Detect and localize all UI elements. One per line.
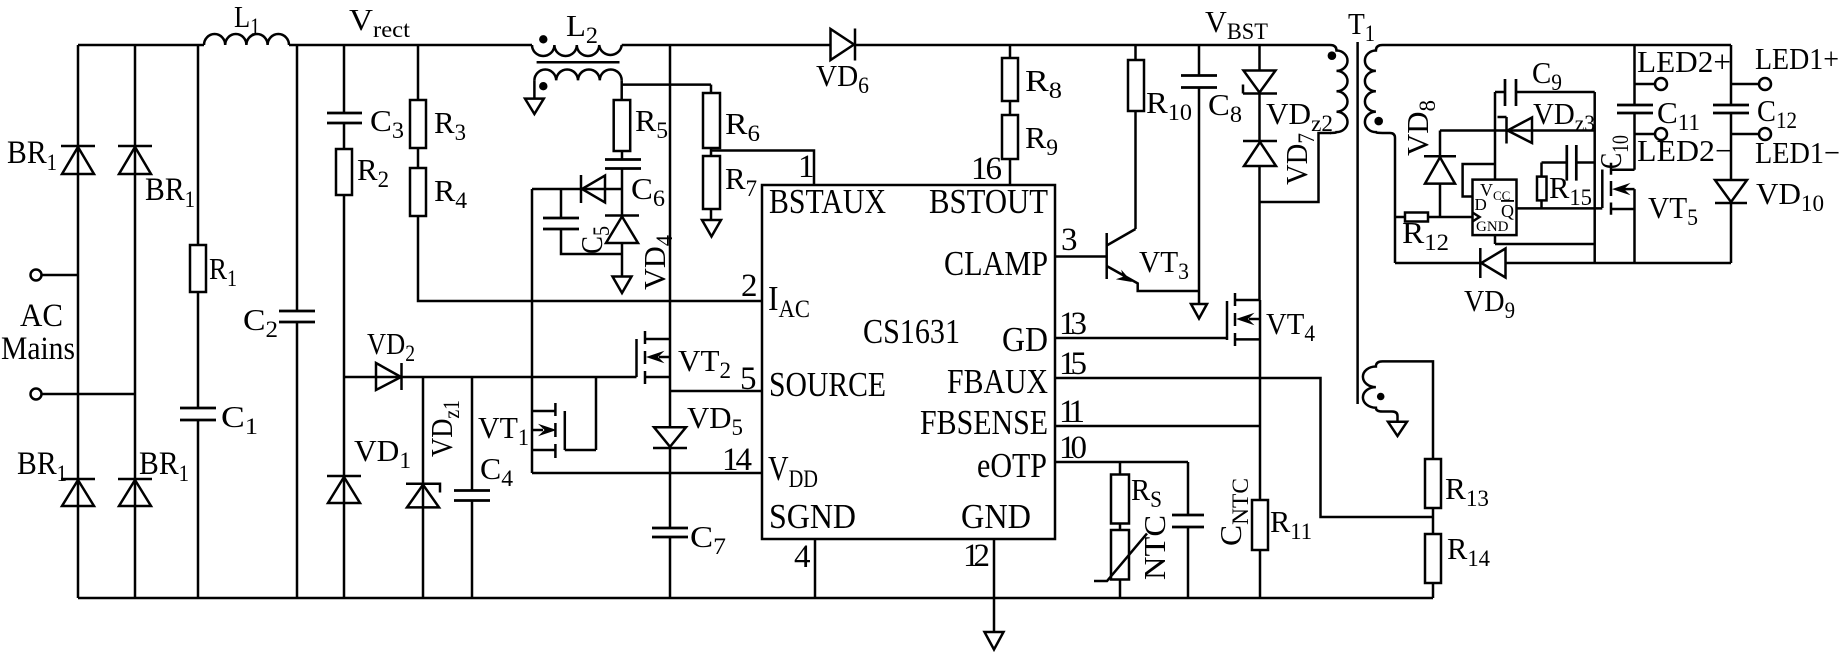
wire LED2 vertical bbox=[1633, 45, 1636, 263]
flip-flop clock mark bbox=[1473, 213, 1480, 222]
svg-text:LED1+: LED1+ bbox=[1755, 41, 1839, 76]
capacitor C7 bbox=[652, 528, 688, 537]
svg-text:1: 1 bbox=[798, 149, 815, 185]
svg-text:VDz2: VDz2 bbox=[1266, 96, 1333, 136]
diode VD9 bbox=[1480, 248, 1505, 278]
ground under C8 bbox=[1191, 304, 1207, 319]
resistor R15 bbox=[1537, 163, 1547, 209]
wire L2 secondary right leg to R5 bbox=[620, 80, 623, 100]
svg-text:BSTAUX: BSTAUX bbox=[769, 182, 886, 221]
capacitor C11 bbox=[1617, 105, 1653, 113]
svg-text:VD10: VD10 bbox=[1756, 176, 1824, 216]
resistor R7 bbox=[703, 156, 720, 209]
wire pin 10 eOTP bbox=[1055, 461, 1188, 464]
transistor VT4 bbox=[1055, 293, 1260, 346]
transformer L2 primary bbox=[532, 45, 622, 56]
diode BR1 bottom-right bbox=[118, 479, 152, 506]
capacitor C6 bbox=[605, 160, 641, 169]
svg-text:GND: GND bbox=[1476, 219, 1509, 235]
wire R12 clock horizontal bbox=[1395, 216, 1473, 219]
wire left vertical bus bbox=[77, 45, 80, 598]
svg-text:VT5: VT5 bbox=[1648, 190, 1698, 230]
svg-text:R6: R6 bbox=[725, 106, 760, 146]
node LED1- terminal bbox=[1731, 128, 1771, 140]
wire rail L2 to VD6 to T1 bbox=[622, 44, 1330, 47]
svg-text:VD7: VD7 bbox=[1279, 133, 1319, 185]
svg-text:BR1: BR1 bbox=[145, 172, 195, 212]
wire VDz2 VD7 VT4 vertical bbox=[1258, 45, 1261, 300]
svg-text:LED2+: LED2+ bbox=[1637, 44, 1731, 79]
transistor VT5 bbox=[1602, 163, 1634, 215]
resistor R1 bbox=[190, 245, 206, 292]
resistor R5 bbox=[614, 100, 631, 151]
label AC Mains bbox=[1, 298, 75, 367]
svg-text:15: 15 bbox=[1059, 346, 1087, 382]
node AC terminal upper bbox=[31, 270, 79, 281]
svg-text:BR1: BR1 bbox=[17, 446, 67, 486]
svg-text:R14: R14 bbox=[1447, 531, 1490, 571]
svg-text:C7: C7 bbox=[690, 519, 726, 559]
wire second vertical bbox=[134, 45, 137, 598]
resistor R13 bbox=[1425, 459, 1441, 508]
transformer T1 primary dot bbox=[1328, 51, 1337, 60]
svg-text:3: 3 bbox=[1061, 222, 1078, 258]
inductor L1 bbox=[204, 34, 289, 45]
diode VD1 bbox=[327, 476, 361, 503]
wire right vertical x1594 bbox=[1593, 92, 1596, 263]
svg-text:VDz3: VDz3 bbox=[1533, 96, 1595, 136]
wire zener row B bbox=[1440, 129, 1595, 132]
transformer T1 secondary dot bbox=[1374, 117, 1383, 126]
diode VD5 bbox=[653, 427, 687, 448]
diode VD7 bbox=[1243, 141, 1277, 166]
svg-text:C1: C1 bbox=[221, 399, 258, 439]
svg-text:BSTOUT: BSTOUT bbox=[929, 182, 1048, 221]
wire VDz1 vertical bbox=[422, 377, 425, 598]
svg-text:VBST: VBST bbox=[1205, 4, 1268, 44]
resistor R6 bbox=[703, 85, 720, 148]
svg-text:LED2−: LED2− bbox=[1637, 133, 1733, 168]
diode VD6 bbox=[831, 29, 856, 61]
wire pin 3 CLAMP bbox=[1055, 255, 1106, 258]
wire RS NTC branch bbox=[1119, 462, 1122, 598]
node LED2- terminal bbox=[1635, 128, 1668, 140]
capacitor C2 bbox=[279, 311, 315, 322]
svg-text:BR1: BR1 bbox=[7, 135, 57, 175]
svg-text:10: 10 bbox=[1059, 430, 1087, 466]
svg-text:CNTC: CNTC bbox=[1213, 478, 1253, 546]
capacitor C10 bbox=[1567, 145, 1577, 181]
wire R3 R4 vertical and IAC feed bbox=[418, 45, 762, 301]
svg-text:NTC: NTC bbox=[1137, 515, 1172, 580]
wire pin 12 GND bbox=[993, 539, 996, 632]
ground under pin 12 bbox=[985, 632, 1004, 650]
svg-text:VD8: VD8 bbox=[1400, 100, 1440, 156]
svg-text:BR1: BR1 bbox=[139, 446, 189, 486]
svg-text:C12: C12 bbox=[1757, 93, 1797, 133]
svg-text:CS1631: CS1631 bbox=[863, 312, 960, 351]
resistor R4 bbox=[410, 168, 426, 216]
capacitor C5 bbox=[543, 189, 622, 254]
resistor R11 bbox=[1252, 500, 1268, 550]
svg-text:R1: R1 bbox=[209, 251, 237, 291]
node AC terminal lower bbox=[31, 389, 136, 400]
svg-text:VD6: VD6 bbox=[816, 58, 869, 98]
svg-text:VDz1: VDz1 bbox=[424, 400, 464, 457]
wire R1 C1 vertical bbox=[197, 45, 200, 598]
transformer T1 secondary bbox=[1365, 45, 1395, 138]
svg-text:L1: L1 bbox=[234, 0, 260, 39]
transformer L2 primary dot bbox=[539, 35, 547, 43]
svg-text:C8: C8 bbox=[1208, 87, 1242, 127]
svg-text:AC: AC bbox=[20, 298, 63, 334]
ground under T1 aux bbox=[1388, 422, 1407, 436]
transistor VT1 bbox=[532, 377, 596, 458]
svg-text:C9: C9 bbox=[1532, 55, 1562, 95]
wire R10 to VT3 collector bbox=[1134, 45, 1137, 229]
zener VDz2 bbox=[1243, 71, 1277, 94]
transistor VT3 bbox=[1107, 229, 1199, 291]
svg-text:VT1: VT1 bbox=[478, 410, 529, 450]
wire VDD pin14 bbox=[532, 472, 762, 475]
wire D input jog bbox=[1463, 164, 1495, 197]
diode VD3 (unlabeled, on C5 wire) bbox=[581, 175, 605, 203]
svg-text:GND: GND bbox=[961, 497, 1031, 536]
svg-text:VT4: VT4 bbox=[1266, 306, 1315, 346]
wire C8 vertical bbox=[1198, 45, 1201, 304]
capacitor C12 bbox=[1713, 105, 1749, 113]
diode BR1 top-left bbox=[61, 146, 95, 174]
wire SOURCE pin5 bbox=[670, 390, 762, 393]
transistor VT2 bbox=[637, 331, 671, 384]
capacitor C4 bbox=[454, 491, 490, 501]
svg-text:VD1: VD1 bbox=[354, 433, 411, 473]
diode BR1 bottom-left bbox=[61, 479, 95, 506]
flip-flop U2 box bbox=[1473, 180, 1517, 236]
svg-text:FBAUX: FBAUX bbox=[947, 362, 1048, 401]
wire Vcc vertical bbox=[1494, 92, 1497, 180]
svg-text:SGND: SGND bbox=[769, 497, 856, 536]
svg-text:4: 4 bbox=[794, 539, 811, 575]
capacitor C8 bbox=[1181, 76, 1217, 88]
svg-text:VT2: VT2 bbox=[678, 343, 731, 383]
diode BR1 top-right bbox=[118, 146, 152, 174]
resistor R3 bbox=[410, 100, 426, 148]
transformer L2 secondary dot bbox=[539, 82, 547, 90]
svg-text:VD9: VD9 bbox=[1464, 283, 1515, 323]
svg-text:C4: C4 bbox=[480, 451, 514, 491]
transformer T1 core bbox=[1356, 42, 1359, 404]
wire C4 vertical bbox=[471, 377, 474, 598]
ground under R7 bbox=[702, 220, 721, 237]
svg-text:SOURCE: SOURCE bbox=[769, 365, 886, 404]
resistor R8 bbox=[1002, 58, 1018, 101]
wire T1 secondary down leg bbox=[1394, 138, 1397, 263]
resistor R12 bbox=[1405, 213, 1428, 222]
svg-text:R4: R4 bbox=[434, 173, 468, 213]
ground under VD4 bbox=[613, 277, 632, 294]
wire R14 to bus bbox=[1432, 583, 1435, 598]
wire VT4 source to R11 to bus bbox=[1259, 300, 1262, 598]
svg-text:R15: R15 bbox=[1549, 170, 1592, 210]
svg-text:11: 11 bbox=[1059, 394, 1085, 430]
wire Qbar to VT5 gate bbox=[1517, 207, 1603, 210]
wire pin 15 FBAUX net bbox=[1055, 378, 1433, 517]
svg-text:Vrect: Vrect bbox=[349, 2, 411, 42]
svg-text:R11: R11 bbox=[1270, 504, 1312, 544]
svg-text:14: 14 bbox=[722, 442, 752, 478]
wire pin 4 SGND bbox=[814, 539, 817, 598]
wire secondary bottom rail bbox=[1395, 262, 1731, 265]
svg-text:5: 5 bbox=[740, 361, 757, 397]
wire vertical x532 (C5 wire down through IAC, VD2 wires to VDD) bbox=[531, 189, 534, 473]
wire VD7 bottom to T1 primary bottom bbox=[1260, 133, 1332, 202]
resistor R14 bbox=[1425, 534, 1441, 583]
transformer L2 core bbox=[537, 61, 620, 64]
wire bottom bus bbox=[78, 597, 1433, 600]
wire R13 R14 junction bbox=[1432, 508, 1435, 534]
svg-text:LED1−: LED1− bbox=[1755, 135, 1840, 170]
svg-text:Q: Q bbox=[1501, 201, 1514, 221]
wire C2 vertical bbox=[296, 45, 299, 598]
thermistor NTC bbox=[1094, 530, 1147, 581]
resistor R2 bbox=[336, 149, 352, 195]
svg-text:CLAMP: CLAMP bbox=[944, 244, 1048, 283]
wire C10 row bbox=[1542, 161, 1595, 164]
wire pin 11 FBSENSE bbox=[1055, 425, 1260, 428]
wire R5 to C6 bbox=[621, 151, 624, 216]
wire aux to R13 bbox=[1383, 361, 1434, 459]
wire to R6 bbox=[622, 83, 711, 86]
svg-text:VD5: VD5 bbox=[687, 400, 743, 440]
svg-text:R13: R13 bbox=[1445, 471, 1489, 511]
transformer L2 secondary bbox=[534, 69, 621, 80]
svg-text:C6: C6 bbox=[631, 171, 665, 211]
svg-text:R9: R9 bbox=[1025, 120, 1058, 160]
svg-text:C3: C3 bbox=[370, 103, 404, 143]
wire VD2 horizontal bbox=[344, 376, 637, 379]
svg-text:GD: GD bbox=[1002, 320, 1048, 359]
svg-text:D: D bbox=[1475, 195, 1487, 214]
resistor RS bbox=[1111, 475, 1129, 524]
wire CNTC branch bbox=[1187, 462, 1190, 598]
svg-text:R5: R5 bbox=[635, 103, 668, 143]
svg-text:Mains: Mains bbox=[1, 331, 75, 367]
wire pin1 BSTAUX bbox=[711, 148, 814, 185]
resistor R10 bbox=[1128, 60, 1144, 111]
zener VDz1 bbox=[406, 484, 440, 508]
capacitor C3 bbox=[327, 113, 362, 123]
svg-text:eOTP: eOTP bbox=[977, 446, 1047, 485]
svg-text:R8: R8 bbox=[1025, 63, 1062, 103]
svg-text:R3: R3 bbox=[434, 105, 466, 145]
svg-text:C10: C10 bbox=[1593, 135, 1633, 169]
ground under L2 secondary bbox=[525, 99, 544, 114]
svg-text:VDD: VDD bbox=[768, 449, 818, 493]
diode VD10 bbox=[1715, 180, 1747, 203]
wire top rail left bbox=[78, 44, 532, 47]
svg-text:C2: C2 bbox=[243, 302, 278, 342]
wire top rail secondary to LED1 bbox=[1383, 44, 1732, 47]
transformer T1 primary bbox=[1330, 45, 1348, 133]
wire ff GND stub and bottom row bbox=[1495, 235, 1595, 244]
svg-text:12: 12 bbox=[963, 538, 990, 574]
resistor R9 bbox=[1002, 115, 1018, 159]
node LED1+ terminal bbox=[1731, 78, 1771, 90]
svg-text:16: 16 bbox=[971, 151, 1002, 187]
capacitor C9 bbox=[1505, 79, 1516, 106]
svg-text:RS: RS bbox=[1131, 472, 1162, 512]
wire R7 to ground bbox=[710, 209, 713, 220]
op-amp U1 chip CS1631 outline bbox=[762, 185, 1055, 539]
svg-text:R7: R7 bbox=[725, 161, 757, 201]
wire C5 top horizontal bbox=[532, 188, 622, 191]
wire R8 R9 to pin16 bbox=[1009, 45, 1012, 185]
svg-text:13: 13 bbox=[1059, 306, 1087, 342]
diode VD2 bbox=[376, 363, 402, 390]
wire C3 R2 VD1 vertical bbox=[343, 45, 346, 598]
wire vertical x670 main bbox=[669, 45, 672, 598]
wire L2 secondary left leg bbox=[533, 80, 536, 98]
wire C9 row A bbox=[1495, 91, 1595, 94]
diode VD8 bbox=[1424, 131, 1456, 218]
svg-text:R10: R10 bbox=[1146, 85, 1192, 125]
capacitor CNTC bbox=[1172, 515, 1204, 527]
svg-text:VT3: VT3 bbox=[1139, 244, 1189, 284]
svg-text:2: 2 bbox=[741, 268, 758, 304]
transformer T1 aux winding bbox=[1363, 361, 1398, 421]
svg-text:VD2: VD2 bbox=[367, 326, 415, 366]
diode VD4 bbox=[605, 216, 639, 277]
wire LED1 vertical bbox=[1730, 45, 1733, 263]
svg-text:T1: T1 bbox=[1348, 6, 1375, 46]
svg-text:R2: R2 bbox=[357, 152, 389, 192]
zener VDz3 bbox=[1498, 117, 1533, 144]
svg-text:L2: L2 bbox=[566, 8, 598, 48]
transformer T1 aux dot bbox=[1377, 393, 1385, 401]
svg-text:IAC: IAC bbox=[768, 279, 810, 323]
svg-text:FBSENSE: FBSENSE bbox=[920, 403, 1048, 442]
capacitor C1 bbox=[180, 408, 216, 420]
node LED2+ terminal bbox=[1635, 78, 1668, 90]
